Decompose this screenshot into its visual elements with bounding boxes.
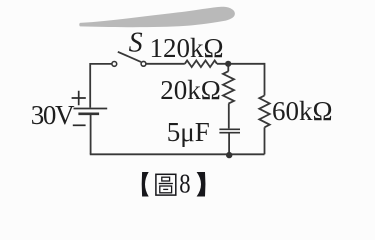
resistor R3 60k zigzag xyxy=(259,96,269,128)
capacitor C1 bottom plate xyxy=(219,132,240,134)
wire capacitor to bottom xyxy=(228,134,230,155)
battery B1 short plate (-) xyxy=(78,112,99,115)
wire bottom horizontal xyxy=(90,153,265,155)
wire left vertical bottom (from battery) xyxy=(90,114,92,155)
svg-text:5μF: 5μF xyxy=(167,117,210,147)
scan swoosh artifact xyxy=(79,7,235,27)
svg-text:20kΩ: 20kΩ xyxy=(160,75,221,105)
switch contact left xyxy=(112,62,117,67)
svg-text:30V: 30V xyxy=(31,100,75,130)
wire R2 to capacitor xyxy=(228,104,230,129)
svg-text:8: 8 xyxy=(179,170,190,199)
svg-text:60kΩ: 60kΩ xyxy=(272,96,333,126)
switch contact right xyxy=(141,61,146,66)
battery plus sign xyxy=(72,91,86,105)
wire right branch vertical top xyxy=(264,63,266,96)
caption character 圖 xyxy=(156,174,176,195)
wire stub node A down xyxy=(227,64,229,71)
capacitor C1 top plate xyxy=(219,128,240,130)
resistor R1 120k zigzag xyxy=(185,61,217,68)
wire left vertical top (to battery) xyxy=(89,63,91,108)
wire R1 to node A and to top-right corner xyxy=(217,63,265,65)
caption right bracket xyxy=(197,172,206,197)
svg-text:S: S xyxy=(129,28,143,59)
caption left bracket xyxy=(142,172,149,197)
wire top-left horizontal xyxy=(90,63,111,65)
wire top from switch to resistor R1 xyxy=(146,63,185,65)
resistor R2 20k zigzag xyxy=(223,71,234,103)
bottom junction dot xyxy=(226,152,232,158)
wire right branch vertical bottom xyxy=(264,127,266,154)
node A junction dot xyxy=(225,61,231,67)
svg-text:120kΩ: 120kΩ xyxy=(150,33,224,63)
switch blade S xyxy=(118,52,141,62)
battery B1 long plate (+) xyxy=(74,108,108,110)
battery minus sign xyxy=(73,124,86,126)
